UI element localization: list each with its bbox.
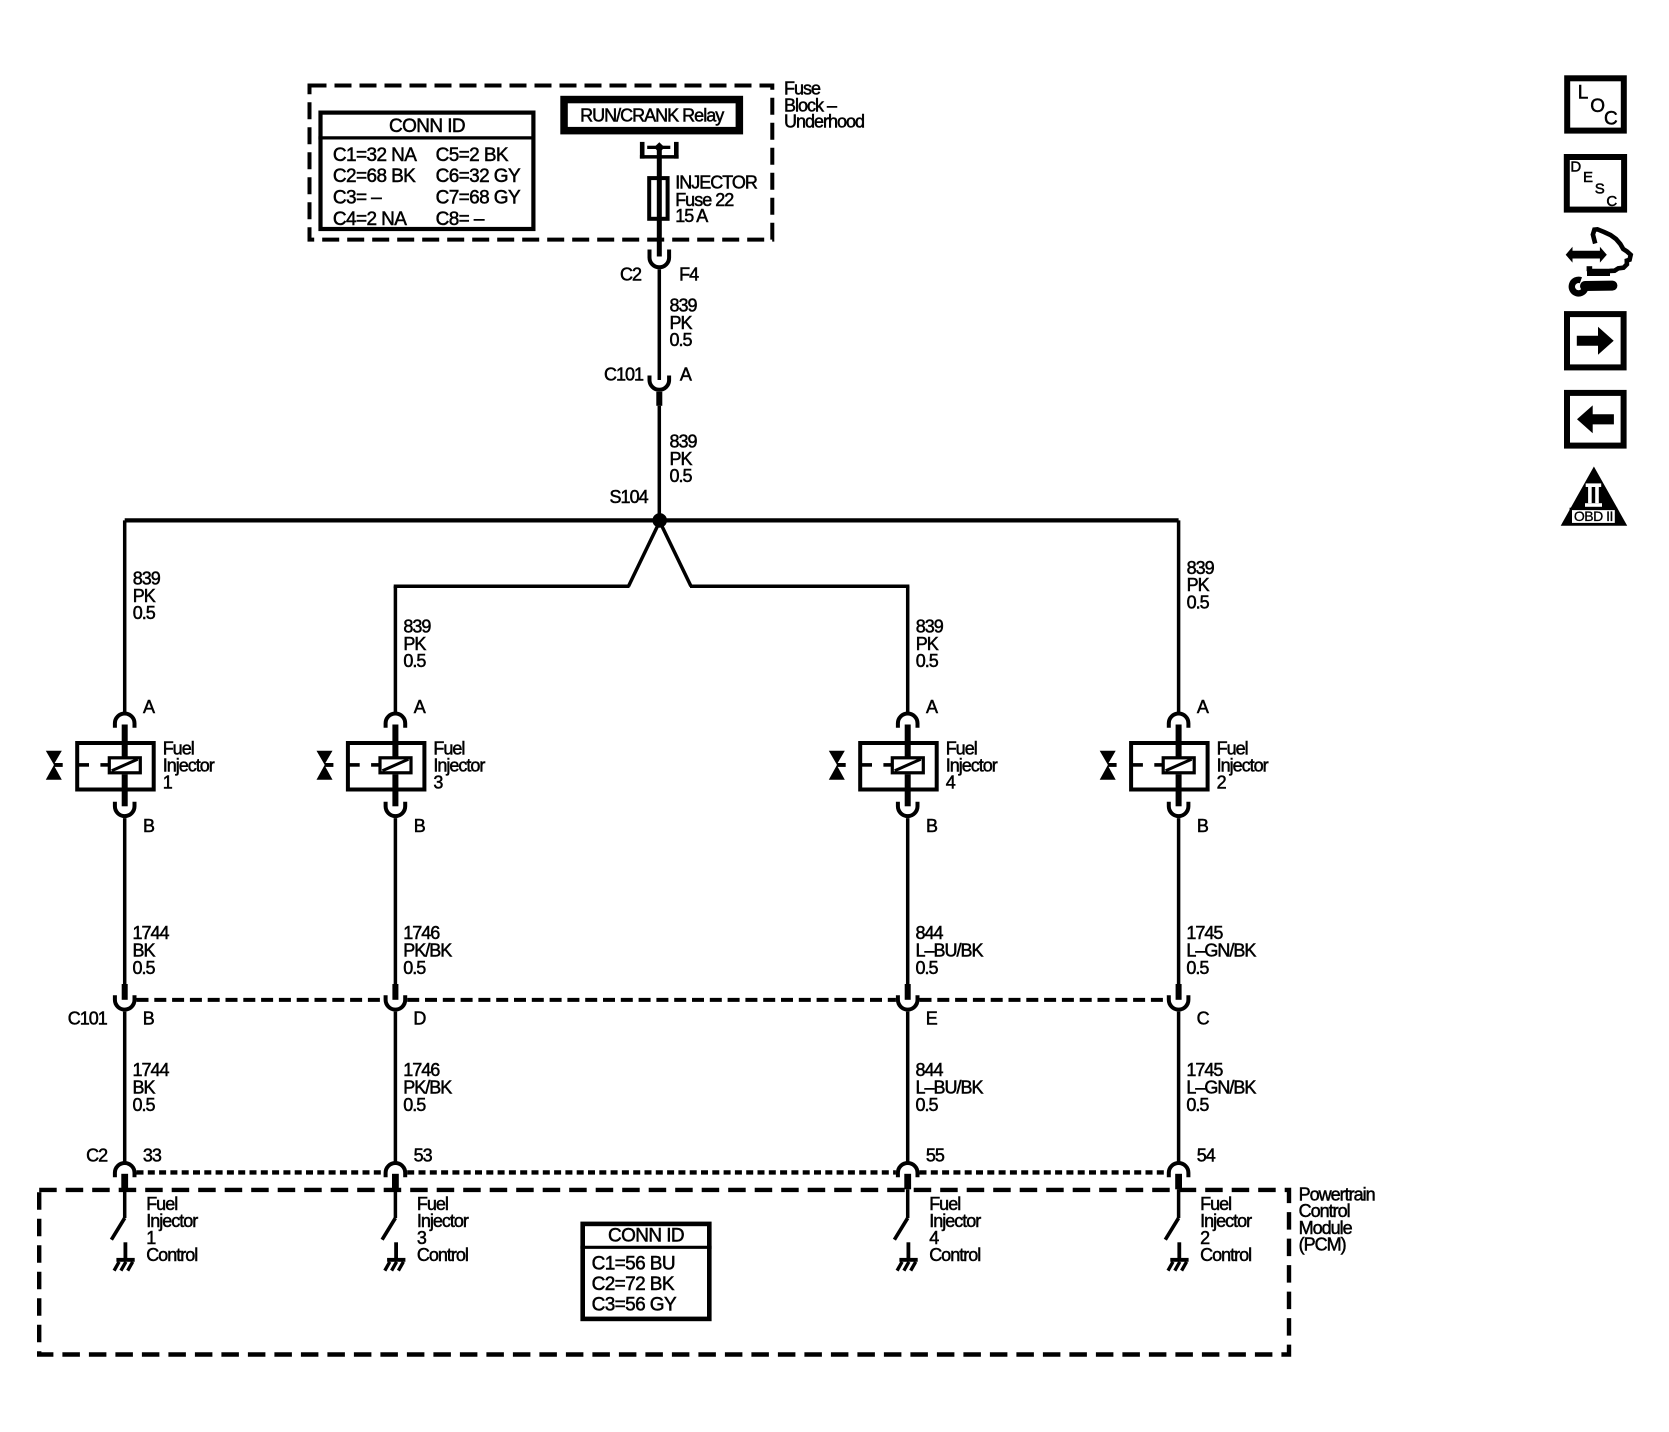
svg-text:15 A: 15 A	[675, 206, 708, 226]
svg-text:0.5: 0.5	[916, 651, 939, 671]
svg-text:C8= –: C8= –	[436, 209, 485, 230]
svg-text:2: 2	[1217, 773, 1227, 793]
svg-text:0.5: 0.5	[133, 603, 156, 623]
svg-text:C101: C101	[68, 1009, 108, 1029]
svg-text:S: S	[1595, 181, 1605, 198]
svg-text:54: 54	[1197, 1145, 1216, 1165]
svg-text:C3= –: C3= –	[333, 188, 382, 209]
svg-text:C2: C2	[620, 265, 642, 285]
svg-text:0.5: 0.5	[133, 1095, 156, 1115]
svg-text:A: A	[1197, 697, 1209, 717]
svg-text:A: A	[143, 697, 155, 717]
svg-text:D: D	[413, 1009, 426, 1029]
svg-text:0.5: 0.5	[403, 651, 426, 671]
svg-text:B: B	[143, 816, 155, 836]
svg-text:0.5: 0.5	[916, 1095, 939, 1115]
svg-text:E: E	[1583, 169, 1593, 186]
svg-text:C: C	[1604, 109, 1618, 130]
svg-text:CONN ID: CONN ID	[608, 1225, 684, 1246]
svg-text:C3=56 GY: C3=56 GY	[592, 1295, 677, 1316]
svg-text:0.5: 0.5	[403, 1095, 426, 1115]
svg-text:3: 3	[433, 773, 443, 793]
svg-text:0.5: 0.5	[670, 330, 693, 350]
svg-text:Underhood: Underhood	[784, 112, 864, 132]
svg-text:OBD II: OBD II	[1574, 508, 1613, 524]
svg-text:0.5: 0.5	[1187, 593, 1210, 613]
svg-text:Control: Control	[1200, 1245, 1251, 1265]
svg-text:CONN ID: CONN ID	[389, 116, 465, 137]
svg-text:33: 33	[143, 1145, 162, 1165]
svg-text:C1=32 NA: C1=32 NA	[333, 145, 417, 166]
svg-text:C7=68 GY: C7=68 GY	[436, 188, 521, 209]
svg-text:1: 1	[163, 773, 173, 793]
svg-text:F4: F4	[679, 265, 699, 285]
svg-text:Control: Control	[146, 1245, 197, 1265]
svg-text:C1=56 BU: C1=56 BU	[592, 1254, 675, 1275]
svg-text:C101: C101	[604, 365, 644, 385]
svg-text:A: A	[414, 697, 426, 717]
svg-text:L: L	[1578, 82, 1589, 103]
svg-text:C2=68 BK: C2=68 BK	[333, 166, 416, 187]
svg-text:53: 53	[414, 1145, 433, 1165]
svg-text:RUN/CRANK Relay: RUN/CRANK Relay	[580, 106, 724, 126]
svg-text:B: B	[414, 816, 426, 836]
svg-text:B: B	[926, 816, 938, 836]
svg-text:C6=32 GY: C6=32 GY	[436, 166, 521, 187]
svg-text:D: D	[1570, 159, 1581, 176]
svg-text:C2: C2	[86, 1145, 108, 1165]
svg-text:B: B	[143, 1009, 155, 1029]
svg-text:0.5: 0.5	[403, 958, 426, 978]
svg-text:C5=2 BK: C5=2 BK	[436, 145, 509, 166]
svg-text:0.5: 0.5	[1186, 958, 1209, 978]
svg-text:B: B	[1197, 816, 1209, 836]
svg-text:(PCM): (PCM)	[1299, 1235, 1346, 1255]
svg-text:4: 4	[946, 773, 956, 793]
svg-text:C4=2 NA: C4=2 NA	[333, 209, 407, 230]
svg-text:S104: S104	[610, 487, 649, 507]
svg-text:0.5: 0.5	[1186, 1095, 1209, 1115]
svg-text:C: C	[1197, 1009, 1210, 1029]
svg-text:Control: Control	[417, 1245, 468, 1265]
svg-text:O: O	[1590, 96, 1605, 117]
svg-text:A: A	[926, 697, 938, 717]
svg-text:0.5: 0.5	[916, 958, 939, 978]
svg-text:0.5: 0.5	[133, 958, 156, 978]
svg-text:55: 55	[926, 1145, 945, 1165]
svg-text:Control: Control	[929, 1245, 980, 1265]
svg-text:0.5: 0.5	[670, 466, 693, 486]
svg-text:E: E	[926, 1009, 938, 1029]
svg-text:C: C	[1606, 193, 1617, 210]
svg-text:A: A	[680, 365, 692, 385]
svg-text:C2=72 BK: C2=72 BK	[592, 1274, 675, 1295]
